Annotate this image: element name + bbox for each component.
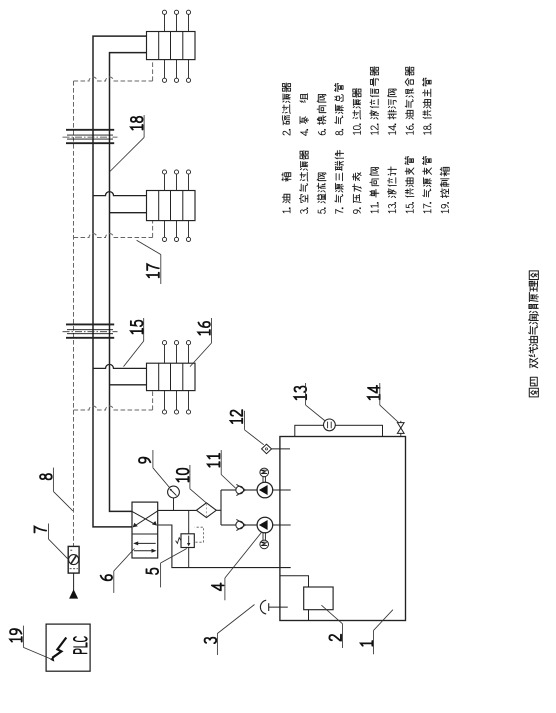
wire: oil branch from line B y=385 bbox=[110, 384, 147, 386]
wire: air main 8 (dashed) vertical bbox=[73, 81, 75, 546]
air supply arrow (compressed air source) bbox=[69, 589, 78, 598]
legend row 4 left entry: 7. 气源三联件 bbox=[335, 150, 344, 213]
magnetic filter 2 (磁过滤器) bbox=[304, 587, 333, 610]
wire: gauge stem bbox=[173, 498, 175, 510]
legend row 6 right entry: 12. 液位信号器 bbox=[370, 67, 379, 135]
breather vent 3 (空气过滤器) bbox=[260, 600, 287, 614]
wire: top pump suction bbox=[273, 489, 291, 491]
check valve 11 (单向阀) y=490 bbox=[236, 484, 257, 495]
legend row 2 left entry: 3. 空气过滤器 bbox=[299, 151, 308, 214]
callout label 11 (check valve) with leader bbox=[208, 450, 236, 488]
figure caption 图四 双线油气润滑原理图 bbox=[529, 271, 539, 397]
lubrication point pins of distributor 1 bbox=[162, 10, 190, 82]
legend row 9 right entry: 18. 供油主管 bbox=[423, 78, 432, 134]
legend row 8 right entry: 16. 油气混合器 bbox=[405, 67, 414, 135]
level signal device 12 (液位信号器) bbox=[262, 444, 272, 454]
wire: return line to tank bbox=[158, 525, 291, 568]
legend row 6 left entry: 11. 单向阀 bbox=[370, 168, 379, 213]
callout label 8 (air main) with leader bbox=[40, 468, 73, 511]
callout label 7 (air service unit) with leader bbox=[35, 524, 69, 560]
legend row 1 right entry: 2. 磁过滤器 bbox=[282, 83, 290, 135]
callout label 14 (drain valve) with leader bbox=[368, 383, 398, 422]
callout label 12 (level signal) with leader bbox=[231, 410, 264, 445]
level gauge 13 (液位计) bbox=[324, 419, 336, 431]
wire: oil branch 15 from line A (hop over B) y=196 bbox=[93, 192, 147, 196]
pipe section break / coupling symbol at y=130 bbox=[63, 130, 118, 143]
legend row 1 left entry: 1. 油 箱 bbox=[282, 173, 291, 213]
wire: level signal stub bbox=[272, 448, 291, 450]
callout label 16 (mixer block) with leader bbox=[190, 318, 212, 367]
wire: pump manifold junction bbox=[220, 490, 222, 525]
legend row 10 left entry: 19. 控制箱 bbox=[440, 167, 449, 212]
pump 4 (泵组) y=490 bbox=[257, 482, 273, 498]
legend row 7 left entry: 13. 液位计 bbox=[387, 167, 396, 213]
callout label 2 (magnetic filter) with leader bbox=[321, 605, 342, 648]
callout label 3 (breather) with leader bbox=[205, 605, 255, 656]
check valve 11 (单向阀) y=525 bbox=[236, 519, 257, 530]
pipe section break / coupling symbol at y=324 bbox=[63, 324, 118, 337]
callout label 19 (control box) with leader bbox=[10, 626, 52, 660]
wire: filter to manifold bbox=[216, 509, 221, 511]
pump 4 (泵组) y=525 bbox=[257, 517, 273, 533]
callout label 1 (oil tank) with leader bbox=[361, 610, 393, 655]
wire: air branch 17 (dashed) to block 1 bbox=[74, 77, 153, 81]
callout label 9 (pressure gauge) with leader bbox=[139, 450, 170, 488]
callout label 6 (directional valve) with leader bbox=[101, 549, 135, 593]
wire: air riser (dashed) into block 2 bbox=[152, 221, 154, 238]
legend row 3 left entry: 5. 溢流阀 bbox=[317, 173, 326, 214]
wire: oil branch 15 from line A (hop over B) y=368 bbox=[93, 364, 147, 368]
wire: air branch 17 (dashed) to block 3 bbox=[74, 406, 153, 410]
legend row 4 right entry: 8. 气源总管 bbox=[335, 84, 344, 135]
legend row 2 right entry: 4. 泵 组 bbox=[300, 94, 309, 136]
wire: top pump branch bbox=[221, 489, 236, 491]
lubrication point pins of distributor 2 bbox=[162, 170, 190, 242]
directional valve 6 (换向阀) bbox=[132, 502, 158, 558]
oil-gas mixer block 16 (distributor 2) bbox=[147, 191, 196, 221]
callout label 4 (pump) with leader bbox=[212, 532, 262, 600]
wire: pressure line from valve to pump manifold bbox=[158, 509, 197, 511]
wire: air inlet stem bbox=[73, 573, 75, 590]
line filter 10 (过滤器) bbox=[196, 503, 216, 518]
callout label 5 (relief valve) with leader bbox=[147, 549, 187, 588]
wire: air riser (dashed) into block 3 bbox=[152, 391, 154, 410]
callout label 13 (level gauge) with leader bbox=[295, 383, 326, 421]
wire: oil main line B (right, 供油主管 18) bbox=[110, 53, 147, 512]
wire: oil main line A (left, 供油主管) bbox=[93, 36, 147, 527]
legend row 8 left entry: 15. 供油支管 bbox=[405, 157, 414, 213]
wire: air branch 17 (dashed) to block 2 bbox=[74, 234, 153, 238]
motor M of top pump bbox=[260, 468, 269, 482]
legend row 5 right entry: 10. 过滤器 bbox=[353, 88, 361, 134]
wire: bottom pump branch bbox=[221, 524, 236, 526]
callout label 18 (oil main) with leader bbox=[110, 115, 144, 171]
level gauge housing on tank bbox=[295, 425, 383, 436]
relief valve 5 (溢流阀) bbox=[176, 527, 204, 547]
magnetic filter compartment bbox=[280, 576, 309, 621]
legend row 7 right entry: 14. 排污阀 bbox=[388, 89, 397, 134]
oil tank 1 (油箱) bbox=[280, 437, 406, 621]
oil-gas mixer block 16 (distributor 3) bbox=[147, 363, 196, 390]
legend row 5 left entry: 9. 压力表 bbox=[352, 173, 361, 214]
wire: bottom pump suction bbox=[273, 524, 291, 526]
oil-gas mixer block 16 (distributor 1) bbox=[147, 32, 196, 60]
callout label 17 (air branch) with leader bbox=[137, 240, 161, 284]
wire: relief valve tap bbox=[188, 510, 190, 533]
pressure gauge 9 (压力表) bbox=[168, 486, 180, 498]
PLC control box 19 (控制箱) bbox=[46, 624, 90, 671]
wire: relief valve drain bbox=[188, 548, 190, 568]
callout label 10 (filter) with leader bbox=[177, 465, 206, 503]
motor M of bottom pump bbox=[260, 533, 269, 549]
air service unit 7 (气源三联件) bbox=[68, 546, 79, 573]
wire: oil branch from line B y=213 bbox=[110, 212, 147, 214]
callout label 15 (oil branch) with leader bbox=[124, 318, 144, 367]
drain valve 14 (排污阀) bbox=[397, 421, 404, 437]
legend row 9 left entry: 17. 气源支管 bbox=[423, 157, 432, 213]
wire: air riser (dashed) into block 1 bbox=[152, 60, 154, 81]
lubrication point pins of distributor 3 bbox=[162, 341, 190, 415]
legend row 3 right entry: 6. 换向阀 bbox=[317, 94, 326, 134]
